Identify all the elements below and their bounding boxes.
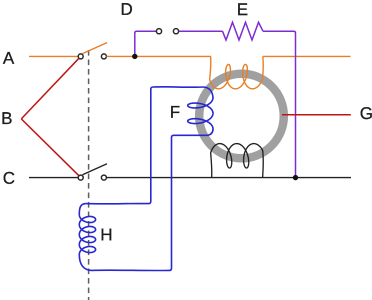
switch D contact right: [173, 29, 178, 34]
svg-text:G: G: [360, 104, 372, 123]
voltage coil F: [188, 87, 213, 135]
wire A left segment: [29, 55, 78, 57]
blue wire H-top to F-top: [86, 87, 203, 204]
resistor E: [223, 22, 264, 40]
switch C blade: [83, 164, 108, 175]
wire A middle segment: [106, 55, 211, 57]
switch A blade: [83, 43, 108, 54]
switch D contact left: [156, 29, 161, 34]
switch C contact right: [101, 175, 106, 180]
current coil on core top: [210, 56, 264, 88]
wire E to corner: [263, 31, 296, 176]
switch A contact left: [78, 54, 83, 59]
wire B lower (to switch C): [21, 119, 79, 176]
wire D to resistor: [179, 30, 223, 32]
wire C right segment: [106, 177, 351, 179]
dashed mechanical linkage line: [88, 50, 90, 300]
svg-text:F: F: [170, 103, 180, 122]
svg-text:E: E: [237, 0, 248, 19]
svg-text:A: A: [3, 49, 15, 68]
svg-text:C: C: [3, 169, 15, 188]
svg-text:B: B: [1, 109, 12, 128]
wire C left segment: [29, 177, 78, 179]
svg-text:D: D: [120, 0, 132, 19]
wire G: [282, 114, 351, 116]
stator core ring: [199, 74, 284, 159]
lag coil H: [79, 204, 95, 271]
current coil on core bottom: [211, 144, 264, 178]
junction node on wire C: [293, 175, 298, 180]
wire A right segment: [263, 55, 351, 57]
svg-text:H: H: [100, 225, 112, 244]
blue wire H-bottom to F-bottom: [92, 135, 202, 270]
wire D riser from junction: [135, 31, 156, 56]
switch C contact left: [78, 175, 83, 180]
wire B upper (to switch A): [21, 58, 79, 119]
switch A contact right: [101, 54, 106, 59]
junction node on wire A: [132, 54, 137, 59]
